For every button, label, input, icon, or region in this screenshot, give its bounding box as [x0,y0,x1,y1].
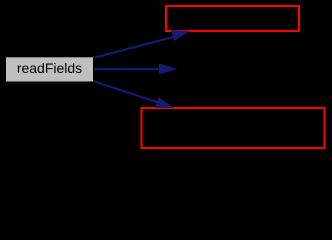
edge readFields -> bottom node [95,82,173,108]
edge readFields -> middle node [95,64,176,74]
edge readFields -> top node [95,31,189,58]
node top-right (red box) [166,6,299,31]
node readFields [5,56,94,82]
svg-text:readFields: readFields [17,60,82,76]
node bottom-right (red box) [142,108,325,148]
